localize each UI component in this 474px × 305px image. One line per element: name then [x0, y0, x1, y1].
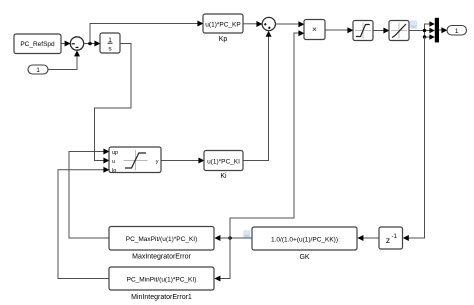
wire integrator output to saturation-dynamic u input — [95, 44, 132, 164]
svg-text:Ki: Ki — [220, 173, 227, 180]
wire MaxIntegratorError output to saturation-dynamic up input — [69, 149, 109, 239]
wire junction down to MinIntegratorError1 input — [214, 238, 230, 282]
svg-text:1.0/(1.0+(u(1)/PC_KK)): 1.0/(1.0+(u(1)/PC_KK)) — [271, 236, 338, 243]
svg-text:up: up — [112, 150, 118, 156]
svg-text:y: y — [156, 159, 159, 165]
svg-text:u: u — [112, 159, 115, 165]
svg-text:1: 1 — [455, 28, 459, 35]
wire rate limiter to mux (three branches) — [410, 21, 435, 40]
wire saturation to rate limiter — [374, 28, 390, 34]
svg-text:MinIntegratorError1: MinIntegratorError1 — [131, 294, 192, 301]
junction dot after sum S1 — [88, 42, 92, 46]
feedback wire down to unit delay — [403, 37, 425, 241]
saturation dynamic block — [109, 147, 161, 174]
unit delay block z^-1 — [379, 227, 403, 249]
wire MinIntegratorError1 output to saturation-dynamic lo input — [58, 167, 109, 279]
gain block Kp u(1)*PC_KP — [203, 14, 243, 43]
svg-text:u(1)*PC_KI: u(1)*PC_KI — [207, 158, 240, 165]
saturation block — [353, 21, 373, 41]
wire sum S1 to integrator with junction — [84, 41, 101, 47]
svg-text:1: 1 — [36, 67, 40, 74]
output port 1 (oval) — [447, 26, 467, 36]
wire sum S2 to product top input — [275, 21, 304, 27]
logging badge on rate limiter — [411, 21, 417, 28]
svg-text:-1: -1 — [392, 234, 398, 240]
constant block PC_RefSpd — [14, 34, 61, 54]
block GK 1.0/(1.0+(u(1)/PC_KK)) — [252, 227, 357, 261]
svg-text:PC_MaxPit/(u(1)*PC_KI): PC_MaxPit/(u(1)*PC_KI) — [126, 236, 198, 243]
block MinIntegratorError1 — [109, 267, 214, 301]
wire GK output to junction — [230, 237, 252, 239]
wire saturation dynamic y to gain Ki — [162, 158, 205, 164]
svg-text:×: × — [312, 24, 317, 34]
wire junction up to gain Kp — [90, 21, 203, 44]
block MaxIntegratorError — [109, 227, 214, 261]
wire junction to MaxIntegratorError input — [214, 235, 230, 241]
rate limiter block — [389, 21, 409, 41]
svg-text:PC_RefSpd: PC_RefSpd — [20, 41, 55, 48]
input port 1 (oval) — [28, 65, 48, 74]
svg-text:lo: lo — [112, 168, 116, 174]
sum S2 — [262, 17, 275, 30]
wire product to saturation — [326, 27, 354, 33]
wire Kp to sum S2 — [244, 21, 263, 27]
wire junction up to product bottom input — [230, 30, 304, 238]
logging badge on GK — [244, 231, 250, 238]
svg-text:MaxIntegratorError: MaxIntegratorError — [132, 254, 191, 261]
mux bar — [435, 18, 439, 43]
product block X — [304, 20, 325, 40]
svg-text:GK: GK — [299, 254, 309, 261]
wire input 1 to sum S1 bottom — [49, 50, 81, 69]
junction dot at GK output — [228, 236, 232, 240]
wire PC_RefSpd to sum S1 — [62, 41, 71, 47]
svg-text:z: z — [386, 235, 390, 245]
wire unit delay to GK — [357, 235, 379, 241]
wire mux to output port — [439, 27, 447, 33]
integrator block 1/s — [100, 33, 120, 53]
svg-text:PC_MinPit/(u(1)*PC_KI): PC_MinPit/(u(1)*PC_KI) — [127, 276, 197, 283]
junction dots before mux — [423, 29, 426, 32]
gain block Ki u(1)*PC_KI — [204, 151, 243, 181]
sum S1 — [70, 37, 83, 50]
svg-text:u(1)*PC_KP: u(1)*PC_KP — [205, 21, 240, 28]
wire Ki output up to sum S2 bottom — [244, 31, 272, 161]
svg-text:Kp: Kp — [219, 36, 228, 43]
